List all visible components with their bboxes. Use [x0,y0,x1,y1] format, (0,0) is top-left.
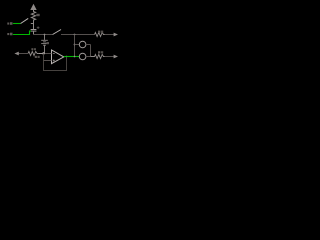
wire R3 right lead [38,53,43,55]
junction output node [74,56,76,58]
wire left input [18,53,28,55]
resistor R4 [91,54,105,58]
wire top right [61,34,95,36]
resistor R2 [95,32,105,36]
lamp L1 right stub [86,44,91,46]
junction battery top [44,34,46,36]
wire feedback loop [44,54,67,71]
wire to output arrow bottom [105,56,115,58]
label R3 bottom [35,56,37,58]
wire green S2 to cap bottom [13,31,31,34]
switch S1 lever [21,18,29,23]
junction feedback tap [66,56,68,58]
lamp L1 [79,41,86,48]
op-amp minus glyph [53,53,55,55]
lamp L2 [79,53,86,60]
label R2 [98,31,100,33]
junction lamp1 [74,44,76,46]
switch S2 post/terminal [7,33,12,36]
op-amp U1 [52,50,64,64]
junction node D [42,52,44,54]
label R4 [98,51,100,53]
wire op-amp non-inverting input [44,60,52,62]
vcc arrow supply [30,4,36,12]
wire op-amp inverting input [44,53,52,55]
junction node C [74,34,76,36]
op-amp output wire green [64,56,80,58]
switch S1 post/terminal [7,22,12,25]
switch S1 right post wire [31,23,34,25]
lamp L1 left stub [75,44,80,46]
wire node B horizontal [34,34,53,36]
wire vertical node C down [74,35,76,57]
switch S3 lever [53,30,61,35]
capacitor C1 top lead [33,24,35,30]
resistor R1 [31,11,35,24]
capacitor C1 plates [31,29,37,31]
output arrow top [114,33,118,37]
wire lamp join vertical [90,45,92,57]
input arrow left [14,52,18,56]
resistor R3 [28,51,38,55]
output arrow bottom [114,55,118,59]
wire to output arrow top [105,34,115,36]
label R1 value [36,14,39,16]
label battery [46,42,49,44]
capacitor C1 plus mark [37,26,40,29]
label R3 top [31,48,33,50]
battery B1 [41,35,48,54]
lamp L2 right stub [86,56,91,58]
wire green S1 [13,23,21,25]
capacitor C1 bottom lead [33,31,35,34]
op-amp plus glyph [53,60,55,62]
